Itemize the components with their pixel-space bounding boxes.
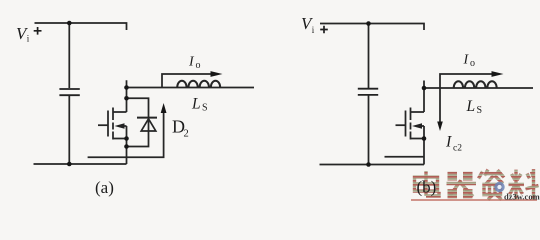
svg-text:(a): (a)	[95, 178, 114, 197]
svg-text:o: o	[196, 60, 201, 71]
svg-text:L: L	[466, 98, 476, 115]
svg-text:I: I	[445, 134, 452, 151]
svg-text:o: o	[470, 58, 475, 69]
svg-text:S: S	[477, 105, 483, 116]
svg-text:(b): (b)	[417, 178, 437, 197]
svg-text:2: 2	[184, 129, 189, 140]
svg-text:S: S	[202, 103, 208, 114]
svg-text:L: L	[191, 96, 201, 113]
svg-text:dz3w.com: dz3w.com	[504, 192, 540, 202]
svg-text:c2: c2	[453, 144, 462, 154]
